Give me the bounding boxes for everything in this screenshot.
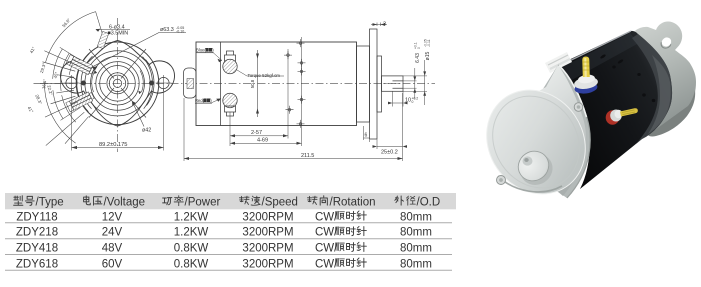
right pin dot [149, 81, 154, 86]
shaft circle [113, 79, 121, 87]
svg-text:80mm: 80mm [400, 211, 432, 223]
dim 6 small [364, 126, 370, 142]
svg-text:Blue(: Blue( [196, 48, 206, 53]
shaft dim extension lines [403, 76, 427, 91]
angular dimension arcs [44, 12, 95, 144]
flange plate side [370, 29, 378, 139]
svg-text:29.3°: 29.3° [39, 62, 47, 73]
svg-text:-0.10: -0.10 [176, 30, 184, 34]
svg-text:/Type: /Type [36, 196, 64, 208]
cap junction rim [536, 65, 590, 198]
circle dia42 [96, 62, 139, 105]
svg-text:CW/: CW/ [315, 258, 338, 270]
front view texts [27, 17, 185, 148]
row separator lines [5, 223, 452, 270]
left ear crosshair [64, 75, 80, 91]
svg-text:ø63.3: ø63.3 [160, 27, 174, 33]
svg-text:Torque 52kgf.cm: Torque 52kgf.cm [248, 73, 281, 78]
svg-text:45°: 45° [53, 71, 60, 79]
svg-text:ZDY218: ZDY218 [16, 227, 58, 239]
boss ring inner [109, 75, 125, 91]
front housing [357, 46, 370, 122]
svg-text:6: 6 [365, 133, 368, 139]
dim 25 [377, 93, 403, 149]
terminal bottom: boot hatched [223, 93, 237, 107]
svg-text:28.3°: 28.3° [34, 94, 43, 106]
svg-text:): ) [212, 48, 214, 53]
body outer circle [76, 42, 159, 125]
body sheen band upper [560, 33, 639, 81]
screw lower-left [497, 176, 506, 185]
right ear hole [158, 77, 169, 88]
flange boss [377, 56, 382, 112]
shaft flat lines [393, 81, 404, 88]
hub shadow [514, 148, 558, 191]
body top highlight line [559, 31, 631, 66]
svg-text:10: 10 [405, 98, 411, 104]
svg-text:/Voltage: /Voltage [104, 196, 146, 208]
svg-text:ZDY618: ZDY618 [16, 258, 58, 270]
DRAWING_SECTION [34, 12, 436, 152]
svg-text:41°: 41° [27, 106, 35, 114]
inner circle [100, 66, 136, 102]
vertical dim 50.8 line [257, 50, 259, 117]
svg-text:6.43: 6.43 [415, 53, 421, 63]
svg-text:/O.D: /O.D [417, 196, 441, 208]
svg-text:6-ø3.4: 6-ø3.4 [109, 24, 125, 30]
svg-text:0: 0 [417, 47, 421, 49]
svg-text:3200RPM: 3200RPM [242, 211, 293, 223]
screw upper-right [574, 103, 583, 112]
cap bottom rim shade [498, 176, 562, 192]
front view horizontal centerline [40, 82, 435, 84]
svg-text:Red(: Red( [195, 98, 205, 103]
shaft tip [523, 156, 533, 165]
svg-text:/Rotation: /Rotation [330, 196, 376, 208]
svg-text:48V: 48V [102, 243, 123, 255]
terminal top: stud nut [225, 51, 236, 61]
flange plate [620, 22, 696, 136]
shaft outer [382, 76, 404, 91]
svg-text:0: 0 [412, 100, 414, 104]
front flange outline [60, 41, 174, 127]
svg-text:22.2°: 22.2° [46, 85, 53, 96]
svg-text:0.8KW: 0.8KW [174, 258, 209, 270]
svg-text:1.2KW: 1.2KW [174, 227, 209, 239]
rotation arrow left [92, 71, 95, 93]
dim 2-57 [230, 49, 288, 139]
hub [513, 145, 555, 186]
svg-text:3200RPM: 3200RPM [242, 243, 293, 255]
svg-text:80mm: 80mm [400, 258, 432, 270]
svg-text:4-69: 4-69 [257, 138, 268, 144]
svg-text:CW/: CW/ [315, 227, 338, 239]
left ear hole [66, 77, 77, 88]
dim 211.5 [184, 98, 403, 161]
svg-text:/Power: /Power [185, 196, 221, 208]
rear bearing hatched [187, 79, 194, 89]
rotation column CW + glyphs [315, 211, 366, 270]
shaft centerline [383, 83, 401, 85]
leader d63.3 [92, 33, 186, 68]
svg-text:89.2±0.175: 89.2±0.175 [99, 142, 127, 148]
dim 10 [393, 92, 404, 107]
front view vertical centerline [117, 18, 119, 152]
bolt circle [91, 56, 145, 110]
svg-text:80mm: 80mm [400, 227, 432, 239]
flange ear hole [660, 36, 673, 49]
svg-text:ø15: ø15 [425, 51, 431, 60]
svg-text:211.5: 211.5 [301, 153, 314, 159]
slot arc left [77, 53, 93, 111]
dim 4-69 [230, 37, 302, 146]
svg-text:■3.5MIN: ■3.5MIN [108, 31, 129, 37]
svg-text:/Speed: /Speed [262, 196, 298, 208]
svg-text:3200RPM: 3200RPM [242, 258, 293, 270]
terminal 1 blue washer and stud [573, 57, 598, 95]
svg-text:CW/: CW/ [315, 243, 338, 255]
rotation arrow right [140, 71, 143, 93]
left pin dot [81, 81, 86, 86]
boss ring outer [107, 73, 128, 94]
svg-text:ZDY118: ZDY118 [16, 211, 57, 223]
dim 3 top [377, 23, 381, 27]
body rear lighter crescent [632, 34, 672, 144]
terminal top: boot hatched [223, 59, 237, 73]
header background [5, 193, 456, 209]
screw section hatched at flange top [97, 31, 108, 48]
leader 6-d3.4 [96, 28, 130, 30]
dim 89.2 line with arrows [72, 147, 164, 149]
svg-text:56.6°: 56.6° [61, 17, 71, 28]
dim 89.2 extension lines [72, 89, 164, 151]
aluminium cap face [467, 71, 605, 213]
aluminium cap side band [520, 65, 586, 196]
right ear crosshair [156, 75, 172, 91]
svg-text:ø42: ø42 [142, 128, 151, 134]
radial spokes [89, 49, 146, 118]
motor photo [467, 22, 696, 214]
label leader Torque [237, 70, 284, 76]
rear bump [184, 68, 197, 98]
face inner ring [475, 79, 597, 204]
svg-text:3200RPM: 3200RPM [242, 227, 293, 239]
terminal bottom: nut [225, 106, 236, 116]
vent holes [600, 54, 656, 102]
SIDE VIEW [184, 23, 428, 162]
leader d42 [132, 101, 144, 127]
header row text [14, 196, 441, 209]
svg-text:1.2KW: 1.2KW [174, 211, 209, 223]
svg-text:80mm: 80mm [400, 243, 432, 255]
svg-text:ZDY418: ZDY418 [16, 243, 58, 255]
svg-text:60V: 60V [102, 258, 123, 270]
svg-text:CW/: CW/ [315, 211, 338, 223]
motor black body [558, 31, 672, 189]
dim 6.43 [414, 68, 416, 99]
terminal 2 red washer and stud [606, 108, 638, 125]
svg-text:16.6°: 16.6° [41, 78, 47, 89]
svg-text:25±0.2: 25±0.2 [381, 150, 398, 156]
body seam line [220, 42, 222, 126]
svg-text:12V: 12V [102, 211, 123, 223]
vent hole crosses [284, 39, 306, 128]
spigot circle dia63.3 [85, 51, 150, 116]
label leader Blue [196, 52, 214, 54]
label leader Red [195, 102, 212, 104]
svg-text:50.8: 50.8 [250, 79, 255, 88]
svg-text:2-57: 2-57 [251, 130, 262, 136]
flange shadow lower [648, 90, 695, 137]
brush pack lower-left hatched [66, 91, 95, 112]
slot arc top [143, 57, 155, 109]
data rows [16, 211, 432, 270]
svg-text:24V: 24V [102, 227, 123, 239]
white label sticker [545, 52, 572, 73]
svg-text:): ) [210, 98, 212, 103]
side view texts [195, 22, 431, 160]
angular dim radial lines [34, 12, 105, 146]
svg-text:3: 3 [383, 22, 386, 28]
cap face rim light [467, 71, 605, 213]
brush pack upper-left hatched [66, 55, 95, 76]
motor body rectangle [196, 42, 357, 126]
svg-text:0.8KW: 0.8KW [174, 243, 209, 255]
svg-text:-0.11: -0.11 [427, 39, 431, 47]
dim d15 [424, 60, 426, 105]
svg-text:41°: 41° [29, 46, 37, 54]
